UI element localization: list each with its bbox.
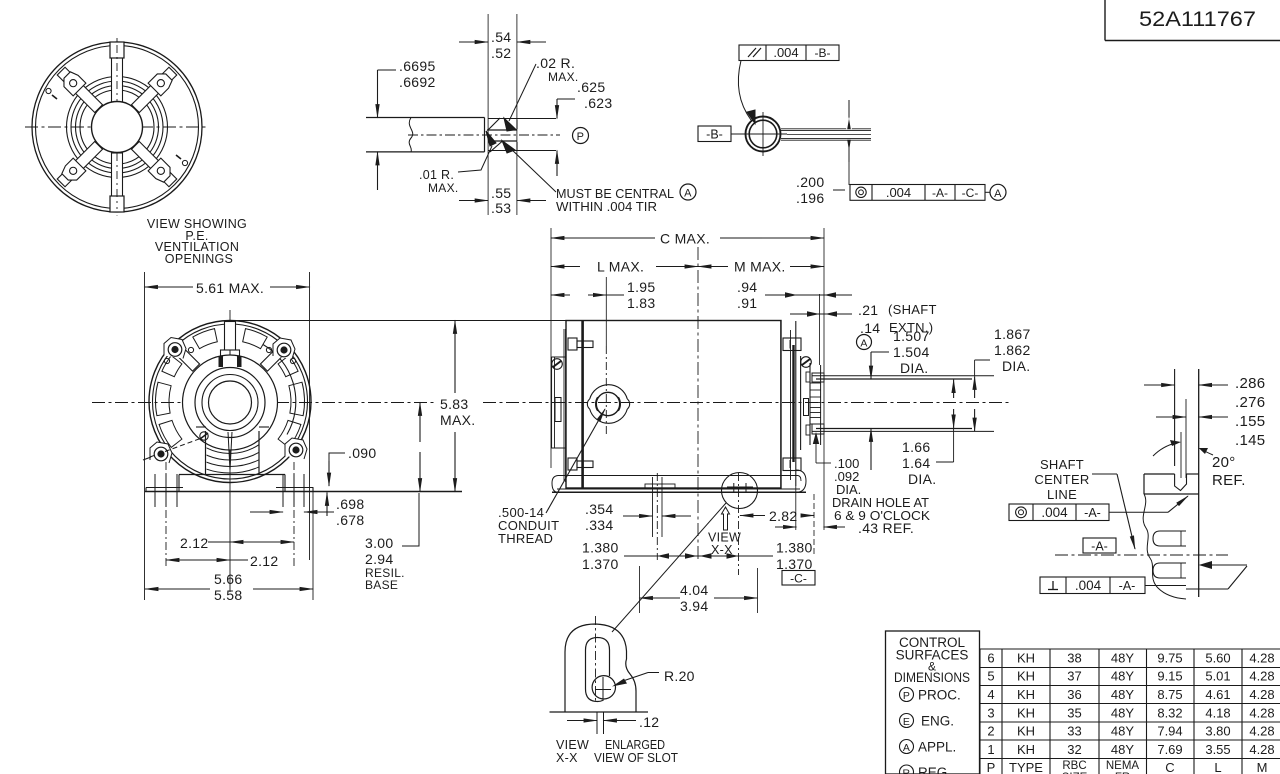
svg-text:ENLARGED: ENLARGED [605, 738, 665, 752]
dimension: .155 .145 [1156, 416, 1186, 418]
svg-text:KH: KH [1017, 705, 1035, 720]
svg-text:8.32: 8.32 [1157, 705, 1182, 720]
svg-text:REG.: REG. [918, 765, 951, 774]
svg-text:PROC.: PROC. [918, 688, 961, 703]
detail: shaft flat detail [366, 118, 560, 152]
svg-text:4.28: 4.28 [1249, 650, 1274, 665]
svg-text:A: A [903, 742, 910, 754]
svg-text:6: 6 [987, 650, 994, 665]
svg-text:E: E [903, 716, 910, 728]
svg-text:.286: .286 [1235, 375, 1265, 392]
dimension: 2.82 [740, 515, 765, 517]
dimension: 1.867 1.862 DIA. arrows [974, 376, 976, 398]
leader: conduit thread callout [546, 409, 605, 513]
svg-text:36: 36 [1067, 687, 1081, 702]
extension lines: flat length [487, 14, 489, 215]
svg-text:MAX.: MAX. [428, 181, 459, 195]
svg-text:.52: .52 [491, 45, 511, 61]
svg-text:.623: .623 [584, 95, 612, 111]
svg-text:APPL.: APPL. [918, 740, 956, 755]
reference line: motor top tangent [230, 320, 566, 322]
dimension: 1.380 1.370 left [624, 555, 773, 557]
svg-text:R.20: R.20 [664, 668, 695, 684]
table: control surfaces & dimensions box [886, 631, 980, 774]
svg-text:.004: .004 [1041, 505, 1068, 520]
svg-text:.200: .200 [796, 174, 824, 190]
centerline: side view vertical [697, 247, 699, 560]
svg-text:1.380: 1.380 [582, 540, 619, 556]
view: shaft end section at datum B [741, 112, 871, 156]
svg-text:48Y: 48Y [1111, 742, 1134, 757]
feature control frame: perpendicularity .004 -A- [1040, 577, 1145, 594]
svg-text:ENG.: ENG. [921, 714, 954, 729]
svg-text:5.61 MAX.: 5.61 MAX. [196, 280, 264, 296]
svg-text:.6692: .6692 [399, 74, 436, 90]
svg-text:5.66: 5.66 [214, 571, 242, 587]
svg-text:2.94: 2.94 [365, 551, 393, 567]
svg-text:.54: .54 [491, 29, 511, 45]
dimension: L MAX. [551, 266, 580, 268]
dimension: 1.95 1.83 [551, 294, 570, 296]
dimension: .354 .334 slot width [623, 515, 653, 517]
svg-text:1.862: 1.862 [994, 342, 1031, 358]
extension line: conduit center up [605, 277, 607, 346]
svg-text:P: P [577, 131, 585, 143]
svg-text:35: 35 [1067, 705, 1081, 720]
svg-text:48Y: 48Y [1111, 724, 1134, 739]
dimension: .55 .53 [459, 200, 488, 202]
svg-text:.21: .21 [858, 302, 878, 318]
svg-text:.678: .678 [336, 512, 364, 528]
svg-text:TYPE: TYPE [1009, 760, 1043, 774]
title block: 52A111767 [1104, 0, 1106, 41]
leader: .100 .092 drain hole [813, 432, 819, 444]
svg-text:.91: .91 [737, 295, 757, 311]
svg-text:A: A [684, 188, 692, 200]
svg-text:3: 3 [987, 705, 994, 720]
dimension: .12 slot width [567, 720, 597, 722]
svg-text:.004: .004 [886, 185, 911, 200]
svg-text:8.75: 8.75 [1157, 687, 1182, 702]
svg-text:BASE: BASE [365, 578, 398, 592]
svg-text:M MAX.: M MAX. [734, 259, 786, 275]
svg-text:5: 5 [987, 669, 994, 684]
svg-text:-C-: -C- [790, 572, 807, 586]
centerline: left base slot [656, 473, 658, 560]
svg-text:5.83: 5.83 [440, 396, 468, 412]
centerline: right base slot [738, 473, 740, 575]
extension lines: front view width [144, 272, 146, 600]
svg-text:.354: .354 [585, 501, 613, 517]
svg-text:.145: .145 [1235, 432, 1265, 449]
svg-text:.02 R.: .02 R. [536, 55, 575, 71]
dimension: .54 .52 [459, 41, 488, 43]
svg-text:4.28: 4.28 [1249, 705, 1274, 720]
svg-text:4.28: 4.28 [1249, 687, 1274, 702]
dimension: .200 .196 keyway [848, 100, 850, 125]
svg-text:.698: .698 [336, 496, 364, 512]
svg-text:REF.: REF. [1212, 472, 1246, 489]
dimension: .090 base gap [329, 453, 345, 481]
svg-text:-B-: -B- [706, 128, 723, 142]
datum balloon A right [990, 184, 1006, 200]
svg-text:WITHIN .004 TIR: WITHIN .004 TIR [556, 199, 657, 214]
svg-text:7.69: 7.69 [1157, 742, 1182, 757]
svg-text:1.380: 1.380 [776, 540, 813, 556]
svg-text:P: P [903, 690, 910, 702]
dimension: .94 .91 [765, 294, 852, 296]
datum balloon A shaft [680, 184, 696, 200]
svg-text:3.00: 3.00 [365, 535, 393, 551]
svg-text:-A-: -A- [1119, 579, 1136, 593]
dimension: 1.66 1.64 DIA. arrows [953, 380, 955, 398]
svg-text:.090: .090 [348, 445, 376, 461]
svg-text:5.58: 5.58 [214, 587, 242, 603]
svg-text:7.94: 7.94 [1157, 724, 1182, 739]
svg-text:.55: .55 [491, 185, 511, 201]
svg-text:.14: .14 [860, 320, 880, 336]
base: resilient base plate front view [145, 474, 462, 507]
leader: R.20 [648, 672, 659, 674]
svg-text:.334: .334 [585, 517, 613, 533]
svg-text:MAX.: MAX. [548, 70, 579, 84]
svg-text:2.12: 2.12 [180, 535, 208, 551]
svg-text:M: M [1257, 760, 1268, 774]
feature control frame: .004 -A- -C- [850, 185, 985, 201]
svg-text:X-X: X-X [711, 543, 733, 557]
svg-text:KH: KH [1017, 742, 1035, 757]
dimension: 2.12 right [234, 541, 294, 543]
centerline: main shaft axis [92, 402, 1012, 404]
svg-text:1.95: 1.95 [627, 279, 655, 295]
svg-text:20°: 20° [1212, 454, 1236, 471]
svg-text:1.64: 1.64 [902, 455, 930, 471]
svg-text:VIEW OF SLOT: VIEW OF SLOT [594, 751, 678, 765]
svg-text:4.61: 4.61 [1205, 687, 1230, 702]
svg-text:.155: .155 [1235, 413, 1265, 430]
svg-text:KH: KH [1017, 724, 1035, 739]
svg-text:.01 R.: .01 R. [419, 168, 454, 182]
svg-text:3.94: 3.94 [680, 598, 708, 614]
view: motor front view with resilient base [143, 310, 311, 592]
svg-text:DIA.: DIA. [900, 360, 928, 376]
datum balloon A side [857, 335, 872, 350]
svg-text:C MAX.: C MAX. [660, 231, 710, 247]
datum flag -B- [698, 126, 731, 142]
svg-text:KH: KH [1017, 669, 1035, 684]
svg-text:OPENINGS: OPENINGS [165, 252, 233, 266]
svg-text:DIMENSIONS: DIMENSIONS [894, 670, 970, 685]
detail circle: view X-X location [722, 473, 758, 509]
svg-text:37: 37 [1067, 669, 1081, 684]
svg-text:L: L [1214, 760, 1221, 774]
svg-text:1.867: 1.867 [994, 326, 1031, 342]
svg-text:.625: .625 [577, 79, 605, 95]
leader: view X-X block arrow [612, 503, 726, 632]
svg-text:4.28: 4.28 [1249, 669, 1274, 684]
extension line: motor left face [550, 228, 552, 468]
svg-text:9.75: 9.75 [1157, 650, 1182, 665]
svg-text:NEMA: NEMA [1106, 760, 1140, 772]
svg-text:.53: .53 [491, 200, 511, 216]
svg-text:.276: .276 [1235, 394, 1265, 411]
svg-text:48Y: 48Y [1111, 705, 1134, 720]
extension line: hub face [819, 294, 821, 365]
svg-text:-A-: -A- [1084, 506, 1101, 520]
svg-text:L MAX.: L MAX. [597, 259, 644, 275]
svg-text:1.83: 1.83 [627, 295, 655, 311]
svg-text:-C-: -C- [962, 186, 979, 200]
svg-text:9.15: 9.15 [1157, 669, 1182, 684]
dimension: .286 .276 keyseat [1144, 384, 1175, 386]
svg-text:1: 1 [987, 742, 994, 757]
table: dimension data grid [980, 649, 1280, 774]
svg-text:A: A [994, 188, 1002, 200]
svg-text:1.507: 1.507 [893, 328, 930, 344]
svg-text:33: 33 [1067, 724, 1081, 739]
view: P.E. ventilation openings end view [25, 38, 209, 216]
svg-text:SHAFT: SHAFT [1040, 457, 1084, 472]
svg-text:.43 REF.: .43 REF. [858, 520, 914, 536]
svg-text:KH: KH [1017, 650, 1035, 665]
svg-text:4.04: 4.04 [680, 582, 708, 598]
dimension: .43 REF. [775, 526, 797, 528]
svg-text:3.80: 3.80 [1205, 724, 1230, 739]
datum balloon P [573, 128, 589, 144]
leader: 20 degrees angle [1153, 443, 1176, 456]
dimension: 4.04 3.94 [639, 566, 641, 613]
svg-text:-A-: -A- [1091, 540, 1108, 554]
svg-text:4: 4 [987, 687, 994, 702]
svg-text:32: 32 [1067, 742, 1081, 757]
extension line: motor right face [823, 228, 825, 530]
svg-text:R: R [903, 768, 911, 774]
svg-text:1.66: 1.66 [902, 439, 930, 455]
svg-text:4.28: 4.28 [1249, 724, 1274, 739]
shaft: extension shaft side view [812, 376, 994, 432]
svg-text:.94: .94 [737, 279, 757, 295]
svg-text:A: A [860, 338, 867, 350]
svg-text:C: C [1165, 760, 1174, 774]
base: resilient base side view [552, 470, 806, 492]
svg-text:2.82: 2.82 [769, 508, 797, 524]
datum flag -A- [1083, 538, 1116, 553]
svg-text:THREAD: THREAD [498, 531, 553, 546]
leader: MUST BE CENTRAL WITHIN .004 TIR [508, 146, 556, 192]
svg-text:48Y: 48Y [1111, 669, 1134, 684]
svg-text:DIA.: DIA. [908, 471, 936, 487]
svg-text:.004: .004 [773, 45, 798, 60]
svg-text:5.01: 5.01 [1205, 669, 1230, 684]
svg-text:.6695: .6695 [399, 58, 436, 74]
svg-text:48Y: 48Y [1111, 650, 1134, 665]
svg-text:1.504: 1.504 [893, 344, 930, 360]
svg-text:DIA.: DIA. [1002, 358, 1030, 374]
svg-text:52A111767: 52A111767 [1139, 7, 1256, 31]
centerlines: base slots front view [165, 462, 167, 567]
svg-text:4.28: 4.28 [1249, 742, 1274, 757]
svg-text:4.18: 4.18 [1205, 705, 1230, 720]
dimension: 5.66 5.58 base width [145, 588, 210, 590]
leader: parallelism to B [738, 61, 751, 121]
svg-text:.12: .12 [639, 714, 659, 730]
dimension: 2.12 left [166, 559, 226, 561]
dimension: 5.83 MAX. [454, 321, 456, 394]
svg-text:.004: .004 [1075, 578, 1102, 593]
dimension: .698 .678 resilient ring width [250, 511, 283, 513]
svg-text:2.12: 2.12 [250, 553, 278, 569]
svg-text:1.370: 1.370 [776, 556, 813, 572]
svg-text:MAX.: MAX. [440, 412, 475, 428]
svg-text:CENTER: CENTER [1034, 472, 1089, 487]
svg-text:VIEW: VIEW [556, 738, 589, 752]
view: motor side view body [552, 321, 825, 489]
svg-text:-A-: -A- [932, 186, 948, 200]
svg-text:LINE: LINE [1047, 487, 1077, 502]
svg-text:RBC: RBC [1062, 760, 1086, 772]
svg-text:X-X: X-X [556, 751, 578, 765]
feature control frame: concentricity .004 -A- [1009, 504, 1109, 521]
svg-text:38: 38 [1067, 650, 1081, 665]
svg-text:3.55: 3.55 [1205, 742, 1230, 757]
svg-text:P: P [987, 760, 996, 774]
dimension: .21 .14 shaft extension [790, 313, 852, 315]
dimension: 3.00 2.94 RESIL. BASE [419, 403, 421, 443]
svg-text:48Y: 48Y [1111, 687, 1134, 702]
svg-text:KH: KH [1017, 687, 1035, 702]
svg-text:1.370: 1.370 [582, 556, 619, 572]
extension line: endbell right [795, 486, 797, 530]
feature control frame: // .004 -B- [739, 45, 839, 61]
datum flag -C- [782, 571, 815, 586]
svg-text:-B-: -B- [815, 46, 831, 60]
dimension: C MAX. [551, 237, 610, 239]
dimension: 5.61 MAX. [145, 286, 194, 288]
extension line: 2.82 right end [813, 494, 815, 556]
detail: shaft center line keyway detail [1055, 369, 1247, 599]
detail: enlarged view of slot [550, 616, 649, 734]
svg-text:5.60: 5.60 [1205, 650, 1230, 665]
svg-text:.196: .196 [796, 190, 824, 206]
dimension: M MAX. [698, 266, 728, 268]
svg-text:2: 2 [987, 724, 994, 739]
dimension: .625 .623 across flats [557, 98, 575, 100]
svg-text:(SHAFT: (SHAFT [888, 302, 937, 317]
